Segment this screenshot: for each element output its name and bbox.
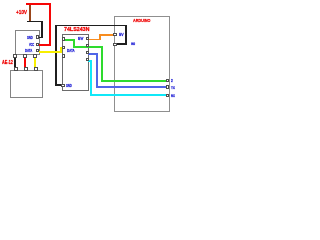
wire yellow jog vertical bbox=[60, 47, 62, 53]
chip pin right 5V bbox=[86, 37, 89, 40]
wire black to chip GND pin bbox=[56, 84, 63, 86]
arduino pin 5V bbox=[113, 33, 116, 37]
AE top pin 3 bbox=[34, 67, 38, 71]
wire green vertical down bbox=[101, 46, 103, 82]
sensor label DATA bbox=[25, 49, 32, 53]
AE top pin 2 bbox=[24, 67, 28, 71]
wire red +10V vertical bbox=[49, 3, 51, 45]
wire orange chip 5V horizontal bbox=[88, 39, 101, 41]
chip pin right 3 bbox=[86, 51, 89, 54]
sensor label VCC bbox=[29, 43, 34, 47]
sensor bottom pin 2 bbox=[23, 54, 27, 58]
arduino pin D2 bbox=[166, 79, 170, 82]
power symbol +10V bar bbox=[26, 3, 50, 5]
wire black to sensor GND pin bbox=[39, 37, 43, 39]
wire red sensor to AE bbox=[24, 58, 26, 69]
wire black stub-to-GND vertical bbox=[41, 21, 43, 39]
wire blue chip pin horizontal bbox=[88, 53, 98, 55]
AE-12 box bbox=[10, 70, 43, 99]
chip 74LS243N box bbox=[62, 34, 89, 91]
wire green vertical inside chip bbox=[73, 39, 75, 48]
sensor label GND bbox=[27, 36, 33, 40]
sensor bottom pin 3 bbox=[33, 54, 37, 58]
label +10V bbox=[16, 11, 27, 17]
arduino box bbox=[114, 16, 170, 112]
wire black sensor to AE bbox=[14, 58, 16, 69]
chip label DATA bbox=[67, 49, 75, 53]
wire green to arduino pin 2 bbox=[101, 80, 167, 82]
arduino pin TX bbox=[166, 85, 170, 88]
sensor bottom pin 1 bbox=[13, 54, 17, 58]
wire yellow sensor DATA horizontal bbox=[39, 51, 62, 53]
arduino label 5V bbox=[119, 34, 124, 39]
wire black GND down to arduino bbox=[125, 25, 127, 46]
wire red to sensor VCC pin bbox=[39, 44, 51, 46]
wire orange to arduino 5V pin bbox=[99, 34, 114, 36]
chip label GND bbox=[66, 84, 72, 88]
sensor pin DATA bbox=[36, 49, 39, 53]
wire green across chip bbox=[73, 46, 102, 48]
arduino label TX bbox=[171, 87, 175, 91]
wire cyan vertical down bbox=[90, 60, 92, 96]
wire cyan chip pin horizontal bbox=[88, 60, 92, 62]
label ARDUINO bbox=[133, 20, 150, 25]
wire black GND riser vertical bbox=[55, 25, 57, 86]
arduino pin RX bbox=[166, 94, 170, 97]
wire blue vertical down bbox=[96, 53, 98, 88]
chip pin left 1 bbox=[62, 37, 65, 40]
arduino pin GND bbox=[113, 43, 116, 47]
chip pin left 2 DATA bbox=[62, 46, 65, 49]
arduino label RX bbox=[171, 95, 175, 99]
sensor box bbox=[15, 30, 40, 55]
sensor pin VCC bbox=[36, 43, 39, 47]
power symbol +10V stub bbox=[29, 5, 31, 21]
arduino label GND bbox=[131, 43, 135, 46]
label 74LS243N bbox=[64, 28, 90, 34]
wire green chip pin1 horizontal bbox=[65, 39, 76, 41]
wire yellow to chip DATA pin bbox=[60, 47, 65, 49]
chip pin GND bbox=[61, 84, 64, 87]
chip pin left 3 bbox=[62, 54, 65, 57]
wire black stub-to-GND horizontal bbox=[27, 21, 43, 23]
chip label 5V bbox=[78, 37, 83, 41]
chip pin right 4 bbox=[86, 58, 89, 61]
wire blue to arduino TX pin bbox=[96, 86, 166, 88]
wire yellow sensor to AE bbox=[34, 58, 36, 69]
sensor pin GND bbox=[36, 35, 39, 39]
arduino label 2 bbox=[171, 79, 173, 83]
chip pin right 2 bbox=[86, 44, 89, 47]
wire orange jog vertical bbox=[99, 34, 101, 41]
wire cyan to arduino RX pin bbox=[90, 94, 166, 96]
wire black GND top horizontal bbox=[56, 25, 127, 27]
label AE-12 bbox=[2, 61, 13, 66]
AE top pin 1 bbox=[14, 67, 18, 71]
wire black to arduino GND pin bbox=[117, 43, 127, 45]
